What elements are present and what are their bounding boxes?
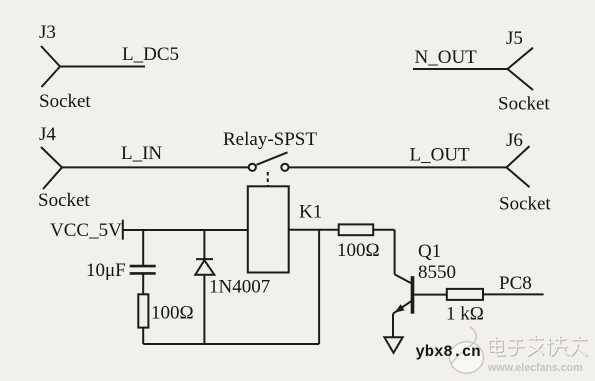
svg-text:10μF: 10μF <box>86 260 126 281</box>
svg-text:L_DC5: L_DC5 <box>122 44 179 65</box>
svg-text:Q1: Q1 <box>418 241 441 262</box>
svg-text:K1: K1 <box>299 202 322 223</box>
svg-text:1 kΩ: 1 kΩ <box>446 304 484 325</box>
svg-text:1N4007: 1N4007 <box>209 277 270 298</box>
svg-text:N_OUT: N_OUT <box>415 47 478 68</box>
svg-text:L_OUT: L_OUT <box>410 145 471 166</box>
svg-text:www.elecfans.com: www.elecfans.com <box>487 362 583 374</box>
svg-text:PC8: PC8 <box>499 273 532 294</box>
svg-text:100Ω: 100Ω <box>337 240 380 261</box>
svg-text:8550: 8550 <box>418 262 456 283</box>
svg-text:Socket: Socket <box>38 190 90 211</box>
svg-text:Socket: Socket <box>39 91 91 112</box>
svg-text:J6: J6 <box>506 130 523 151</box>
svg-text:Relay-SPST: Relay-SPST <box>223 129 317 150</box>
svg-text:Socket: Socket <box>499 194 551 215</box>
svg-text:J5: J5 <box>506 28 523 49</box>
svg-text:ybx8.cn: ybx8.cn <box>416 343 481 361</box>
svg-text:J4: J4 <box>39 124 56 145</box>
svg-text:100Ω: 100Ω <box>151 303 194 324</box>
svg-text:L_IN: L_IN <box>121 143 162 164</box>
svg-text:VCC_5V: VCC_5V <box>50 220 122 241</box>
svg-text:J3: J3 <box>39 22 56 43</box>
svg-text:Socket: Socket <box>498 94 550 115</box>
